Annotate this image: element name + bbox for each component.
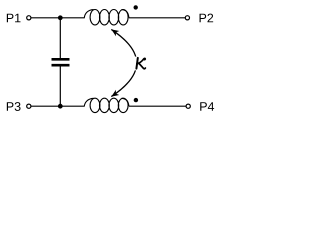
port label P1	[7, 14, 21, 23]
terminal P3	[27, 104, 31, 108]
kappa label gap	[131, 57, 147, 71]
port label P2	[200, 14, 214, 23]
wire P1 to junction	[31, 17, 60, 19]
capacitor C1 plate bottom	[52, 64, 70, 67]
arrowhead bottom	[111, 90, 119, 97]
wire L2 to P4	[129, 105, 186, 107]
coupling arrow arc	[111, 29, 136, 96]
terminal P1	[27, 16, 31, 20]
wire junction to L1	[60, 17, 84, 19]
inductor L2	[84, 98, 129, 112]
node junction top	[58, 15, 63, 20]
wire L1 to P2	[129, 17, 185, 19]
dot L2 polarity	[134, 98, 138, 102]
dot L1 polarity	[134, 5, 138, 9]
capacitor C1 lead bottom	[59, 66, 61, 106]
arrowhead top	[111, 29, 119, 36]
port label P3	[7, 102, 21, 111]
capacitor C1 plate top	[52, 58, 70, 61]
terminal P2	[185, 16, 189, 20]
wire junction to L2	[60, 105, 84, 107]
capacitor C1 lead top	[59, 18, 61, 58]
terminal P4	[186, 104, 190, 108]
inductor L1	[84, 10, 129, 25]
port label P4	[200, 102, 214, 111]
wire P3 to junction	[31, 105, 60, 107]
node junction bottom	[58, 104, 63, 109]
coupling coefficient kappa	[136, 58, 145, 69]
